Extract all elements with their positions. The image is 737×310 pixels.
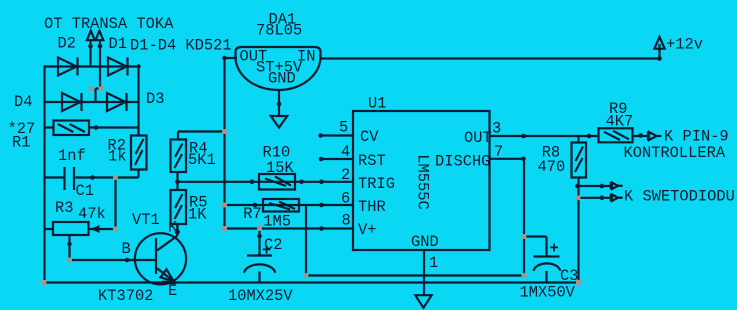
label E (emitter) — [168, 282, 177, 300]
label pin 3 — [492, 120, 501, 138]
label IN (regulator) — [297, 48, 315, 66]
label 15K — [266, 159, 294, 177]
wire R5 bottom to collector — [176, 224, 178, 235]
label RST — [358, 152, 386, 170]
label R4 — [189, 139, 207, 157]
label pin 7 — [494, 143, 503, 161]
label TRIG — [358, 175, 395, 193]
label R3 — [55, 199, 73, 217]
resistor R9 — [599, 128, 633, 142]
svg-text:+: + — [550, 240, 559, 258]
label KT3702 — [98, 287, 153, 305]
svg-text:1K: 1K — [188, 205, 207, 223]
output arrow PIN-9 — [648, 132, 662, 141]
label R7 — [243, 205, 261, 223]
svg-text:U1: U1 — [368, 94, 386, 112]
svg-text:TRIG: TRIG — [358, 175, 395, 193]
wire C3 branch — [524, 237, 547, 257]
svg-text:D4: D4 — [14, 93, 32, 111]
svg-text:GND: GND — [411, 233, 439, 251]
transistor VT1 KT3702 — [129, 224, 186, 285]
wire 78L05 GND stub — [278, 89, 280, 116]
label GND (IC) — [411, 233, 439, 251]
svg-text:D2: D2 — [58, 35, 76, 53]
wire R3 row — [45, 228, 116, 230]
wire LED column to rail — [577, 198, 579, 283]
resistor R10 — [259, 174, 295, 190]
svg-text:47k: 47k — [78, 205, 106, 223]
diode D3 — [107, 93, 127, 111]
label OUT (regulator) — [240, 48, 268, 66]
svg-text:KT3702: KT3702 — [98, 287, 153, 305]
label R2 — [108, 137, 126, 155]
label KONTROLLERA — [624, 144, 726, 162]
wire +5V vertical — [223, 58, 225, 229]
svg-text:D3: D3 — [146, 90, 164, 108]
ground arrow under DA1 — [271, 116, 288, 128]
svg-text:LM555C: LM555C — [414, 154, 432, 209]
label OUT (IC) — [464, 129, 492, 147]
label 4K7 — [606, 113, 634, 131]
label OT TRANSA TOKA — [44, 15, 174, 33]
label DA1 — [269, 11, 297, 29]
label 1k — [108, 148, 126, 166]
label B (base) — [122, 240, 131, 258]
svg-text:1: 1 — [429, 254, 438, 272]
diode D1 — [108, 58, 128, 76]
wire V+ row — [225, 227, 354, 229]
label *27 — [8, 120, 36, 138]
wire R2 bottom lead — [137, 170, 139, 178]
capacitor C1 — [65, 167, 75, 190]
svg-text:B: B — [122, 240, 131, 258]
wire R1 row — [45, 126, 139, 128]
capacitor C3 — [534, 257, 561, 271]
svg-text:C3: C3 — [560, 267, 578, 285]
svg-text:OUT: OUT — [464, 129, 492, 147]
label C3 — [560, 267, 578, 285]
wire THR row — [225, 204, 354, 206]
wire input stub left — [89, 41, 91, 67]
wire input stub right with jog — [96, 41, 101, 103]
svg-text:CV: CV — [360, 128, 379, 146]
svg-text:KONTROLLERA: KONTROLLERA — [624, 144, 726, 162]
label R8 — [542, 144, 560, 162]
label THR — [358, 198, 386, 216]
svg-text:+12v: +12v — [666, 36, 703, 54]
svg-text:4K7: 4K7 — [606, 113, 634, 131]
wire DISCHG vertical — [523, 159, 525, 276]
label D1 — [109, 35, 127, 53]
label 5K1 — [188, 151, 216, 169]
wire R4-R5 junction vertical — [176, 172, 178, 190]
resistor R2 — [131, 136, 147, 170]
wire RST stub — [321, 158, 353, 160]
label pin 6 — [341, 190, 350, 208]
wire node vertical C1-to-R3 — [114, 178, 116, 230]
wire top diode row — [45, 65, 139, 67]
resistor R3 (trimmer) — [53, 222, 100, 235]
label CV — [360, 128, 379, 146]
label pin 4 — [341, 143, 350, 161]
label 78L05 — [256, 22, 302, 40]
svg-text:K: K — [168, 219, 178, 237]
ground arrow under U1 — [415, 295, 431, 308]
label 1K — [188, 205, 207, 223]
wire C2 bottom stub — [258, 272, 260, 283]
label ST+5V — [256, 59, 303, 77]
label R9 — [609, 100, 627, 118]
svg-text:C1: C1 — [76, 182, 94, 200]
label 1M5 — [263, 213, 291, 231]
label pin 5 — [339, 119, 348, 137]
output arrow LED 2 — [611, 194, 623, 202]
label D3 — [146, 90, 164, 108]
label pin 8 — [342, 212, 351, 230]
label 47k — [78, 205, 106, 223]
label D1-D4 KD521 — [130, 37, 232, 55]
svg-text:1M5: 1M5 — [263, 213, 291, 231]
label LM555C vertical — [414, 154, 432, 209]
svg-text:4: 4 — [341, 143, 350, 161]
label C1 — [76, 182, 94, 200]
label 1nf — [58, 147, 86, 165]
svg-text:THR: THR — [358, 198, 386, 216]
label D2 — [58, 35, 76, 53]
svg-text:VT1: VT1 — [132, 211, 160, 229]
label 1MX50V — [520, 284, 576, 302]
label V+ — [358, 221, 376, 239]
svg-text:470: 470 — [538, 158, 566, 176]
svg-text:5: 5 — [339, 119, 348, 137]
svg-text:8: 8 — [342, 212, 351, 230]
label C2 — [264, 236, 282, 254]
svg-text:V+: V+ — [358, 221, 376, 239]
label K SWETODIODU — [624, 188, 735, 206]
svg-text:R1: R1 — [12, 134, 30, 152]
resistor R4 — [171, 140, 187, 173]
wire bottom ground rail — [44, 281, 579, 283]
wire C3 bottom stub — [545, 271, 547, 283]
svg-text:1nf: 1nf — [58, 147, 86, 165]
diode D2 — [58, 58, 78, 76]
wire +5V branch to R4 and CV — [178, 132, 225, 140]
label GND (regulator) — [268, 70, 296, 88]
label R1 — [12, 134, 30, 152]
wire left rail — [43, 66, 45, 283]
svg-text:GND: GND — [268, 70, 296, 88]
resistor R5 — [171, 190, 187, 224]
wire CV stub — [321, 134, 353, 136]
label pin 2 — [341, 166, 350, 184]
svg-text:D1-D4 KD521: D1-D4 KD521 — [130, 37, 232, 55]
wire LED row 1 — [579, 185, 612, 187]
input arrow right — [96, 31, 104, 41]
svg-text:7: 7 — [494, 143, 503, 161]
wire vertical THR to upper rail — [305, 205, 307, 276]
svg-text:78L05: 78L05 — [256, 22, 302, 40]
label DISCHG — [435, 153, 490, 171]
label 470 — [538, 158, 566, 176]
svg-text:D1: D1 — [109, 35, 127, 53]
label +12v — [666, 36, 703, 54]
svg-text:DISCHG: DISCHG — [435, 153, 490, 171]
resistor R8 — [572, 143, 587, 178]
svg-text:1k: 1k — [108, 148, 126, 166]
wire R9 right lead to arrow — [633, 135, 648, 137]
wire 78L05 OUT lead — [225, 57, 238, 59]
svg-text:15K: 15K — [266, 159, 294, 177]
label 10MX25V — [228, 287, 293, 305]
wire pin7 stub — [490, 158, 525, 160]
wire second diode row — [45, 101, 139, 103]
regulator DA1 78L05 body — [236, 47, 321, 90]
label R5 — [189, 194, 207, 212]
gray junction squares — [42, 86, 582, 285]
capacitor C2 — [244, 256, 275, 273]
resistor R1 — [54, 121, 90, 136]
input arrow left — [87, 31, 95, 41]
label plus C2 — [262, 242, 271, 260]
label K PIN-9 — [664, 128, 729, 146]
label U1 — [368, 94, 386, 112]
wire C1 row — [45, 176, 139, 178]
label pin 1 — [429, 254, 438, 272]
+12v arrow — [654, 37, 664, 49]
wire R8 bottom lead — [577, 178, 579, 199]
diode D4 — [62, 93, 82, 111]
wire R8 top lead — [577, 136, 579, 143]
svg-text:K SWETODIODU: K SWETODIODU — [624, 188, 735, 206]
svg-text:2: 2 — [341, 166, 350, 184]
svg-text:6: 6 — [341, 190, 350, 208]
label VT1 — [132, 211, 160, 229]
resistor R7 — [263, 199, 299, 212]
svg-text:OT TRANSA TOKA: OT TRANSA TOKA — [44, 15, 174, 33]
wire 78L05 IN to +12v — [320, 44, 660, 59]
wire TRIG row — [178, 181, 354, 183]
svg-text:RST: RST — [358, 152, 386, 170]
svg-text:10MX25V: 10MX25V — [228, 287, 293, 305]
label R10 — [263, 143, 291, 161]
wire C2 top stub — [258, 229, 260, 255]
wire pin3 OUT row — [490, 135, 600, 137]
label plus C3 — [550, 240, 559, 258]
IC U1 LM555C body — [353, 111, 490, 250]
wire right bridge rail — [137, 66, 139, 136]
wire LED row 2 — [579, 197, 612, 199]
svg-text:5K1: 5K1 — [188, 151, 216, 169]
svg-text:+: + — [262, 242, 271, 260]
wire pin1 ground stub — [423, 250, 425, 295]
output arrow LED 1 — [611, 182, 623, 190]
wire R3 wiper to base — [70, 235, 137, 260]
label D4 — [14, 93, 32, 111]
svg-text:3: 3 — [492, 120, 501, 138]
label K (collector) — [168, 219, 178, 237]
svg-text:E: E — [168, 282, 177, 300]
svg-text:R3: R3 — [55, 199, 73, 217]
wire upper ground rail — [306, 274, 524, 276]
svg-text:1MX50V: 1MX50V — [520, 284, 576, 302]
svg-text:R7: R7 — [243, 205, 261, 223]
